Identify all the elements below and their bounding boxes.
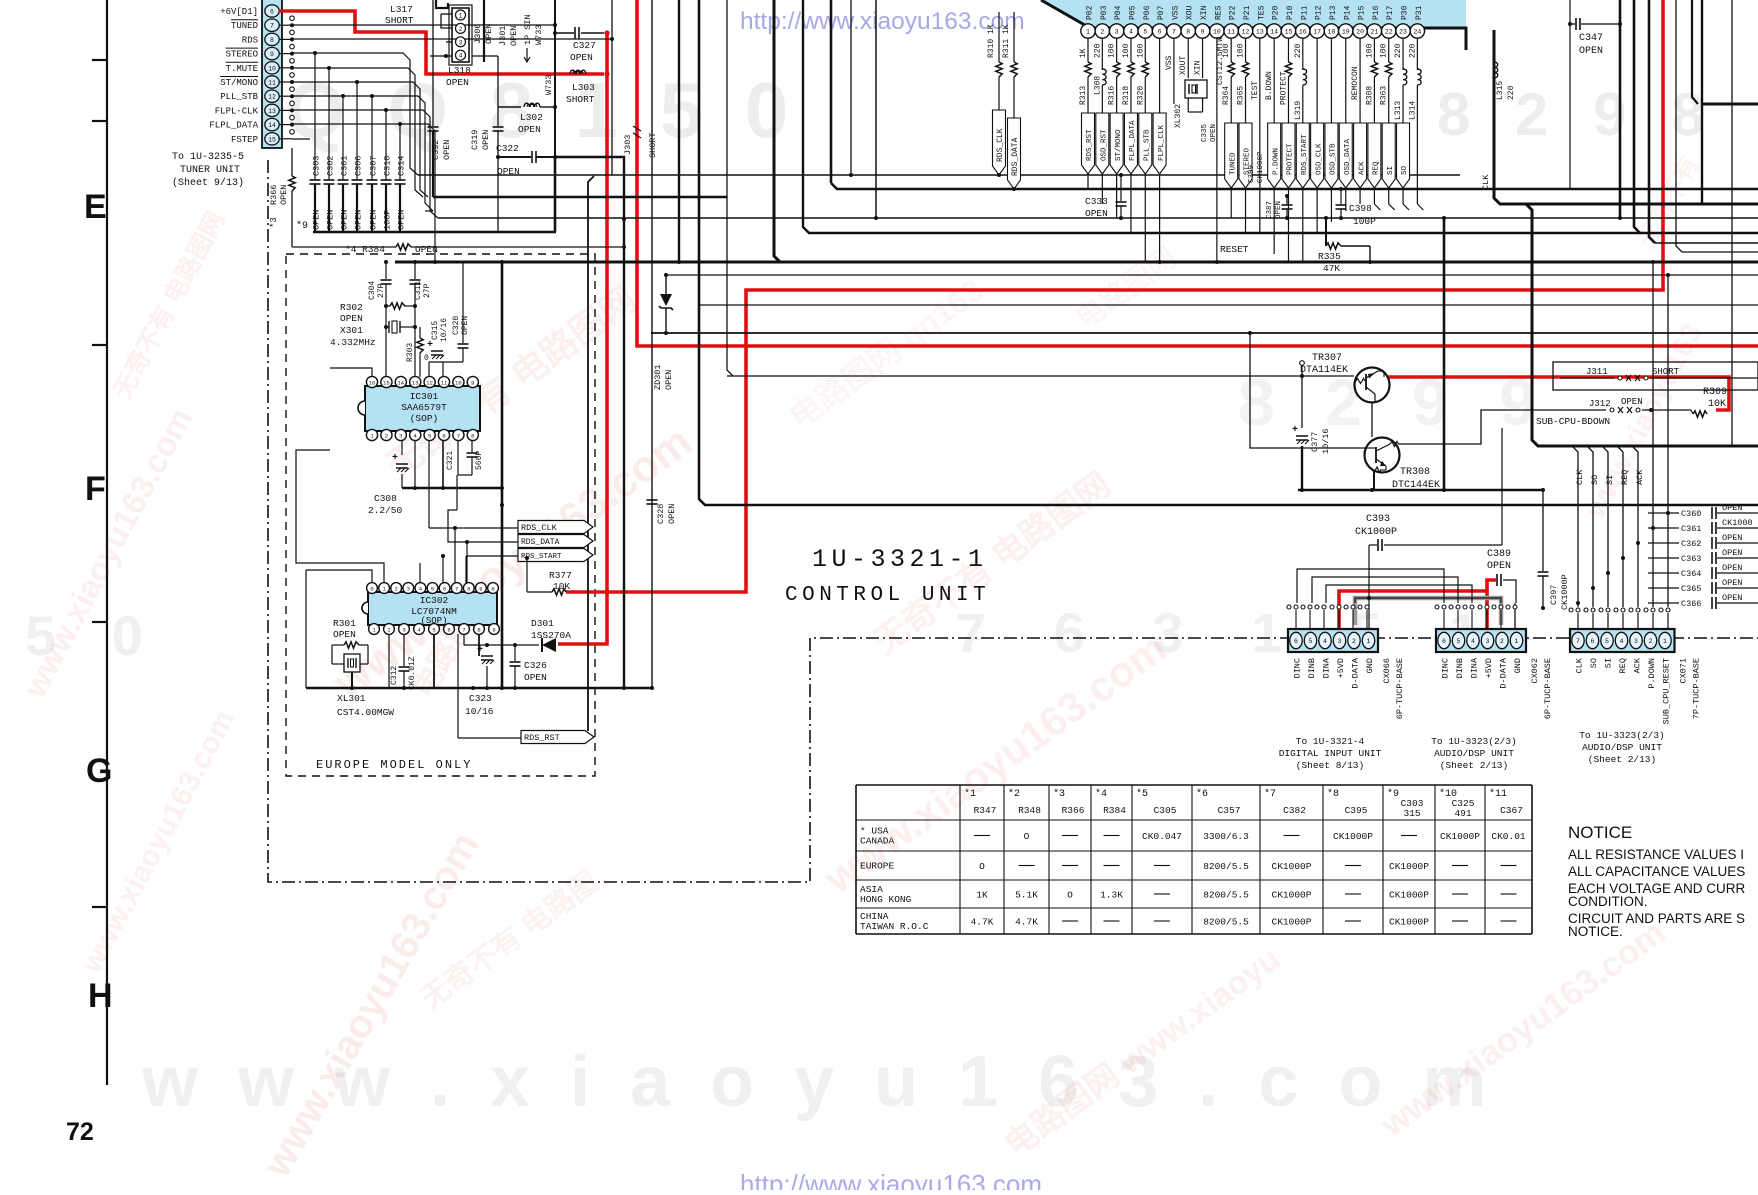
tuner pin stub wires [279, 24, 292, 26]
svg-text:OPEN: OPEN [1722, 548, 1742, 558]
svg-text:18: 18 [1328, 28, 1336, 35]
svg-text:VSS: VSS [1171, 5, 1180, 20]
cpu pin19 drop OSD_DATA [1345, 38, 1347, 211]
svg-text:11: 11 [441, 379, 448, 386]
svg-text:DINB: DINB [1307, 658, 1317, 678]
ic IC301 SAA6579T [365, 386, 480, 431]
svg-text:ST/MONO: ST/MONO [1115, 129, 1123, 161]
svg-text:9: 9 [1201, 28, 1205, 35]
resistor R310 1K RDS_CLK leg [998, 12, 1000, 62]
svg-text:ALL RESISTANCE VALUES I: ALL RESISTANCE VALUES I [1568, 847, 1744, 862]
wire x624 C322 to gnd bus [555, 157, 624, 687]
svg-text:http://www.xiaoyu163.com: http://www.xiaoyu163.com [740, 1169, 1042, 1190]
svg-text:SUB-CPU-BDOWN: SUB-CPU-BDOWN [1536, 416, 1610, 427]
svg-text:OPEN: OPEN [1621, 397, 1643, 407]
svg-text:14: 14 [268, 122, 276, 129]
cpu pin24 drop L314 220 [1416, 38, 1418, 70]
svg-text:OPEN: OPEN [664, 370, 674, 390]
svg-text:6P-TUCP-BASE: 6P-TUCP-BASE [1395, 658, 1405, 719]
svg-text:C333: C333 [1085, 196, 1108, 207]
wire P.DOWN to CX071 [1652, 262, 1654, 607]
svg-text:C382: C382 [1283, 805, 1306, 816]
svg-text:C393: C393 [1366, 514, 1390, 525]
svg-text:(Sheet 9/13): (Sheet 9/13) [172, 177, 244, 189]
diode D301 1SS270A wire [463, 634, 465, 645]
svg-text:13: 13 [268, 108, 276, 115]
cpu pin 24 P31 [1410, 24, 1424, 38]
svg-text:C305: C305 [1154, 805, 1177, 816]
fan pin14 [292, 124, 435, 262]
svg-text:F: F [85, 470, 106, 508]
cpu pin20 drop REMOCON [1359, 38, 1361, 204]
cpu pin15 drop PROTECT [1287, 38, 1289, 62]
svg-text:7: 7 [1576, 638, 1580, 645]
svg-text:PROTECT: PROTECT [1279, 71, 1288, 105]
svg-text:24: 24 [1413, 28, 1421, 35]
cpu pin 3 P04 [1109, 24, 1123, 38]
wire bus y=446 thick right [1494, 30, 1758, 446]
svg-text:D-DATA: D-DATA [1499, 657, 1509, 689]
svg-text:TEST: TEST [1251, 81, 1260, 100]
svg-text:3: 3 [459, 39, 463, 46]
diode D301 symbol [542, 638, 556, 652]
svg-text:10: 10 [268, 65, 276, 72]
svg-text:7: 7 [1172, 28, 1176, 35]
svg-text:CONTROL UNIT: CONTROL UNIT [785, 584, 990, 607]
svg-text:DTA114EK: DTA114EK [1300, 365, 1348, 376]
wire pin10 RES RESET [1216, 38, 1218, 262]
svg-text:C322: C322 [496, 143, 519, 154]
svg-text:RDS_START: RDS_START [1301, 134, 1309, 175]
svg-text:CK0.01: CK0.01 [1491, 831, 1526, 842]
svg-text:*8: *8 [1327, 788, 1339, 800]
svg-text:L313: L313 [1394, 101, 1403, 120]
svg-text:560P: 560P [475, 451, 484, 470]
svg-text:3: 3 [1338, 638, 1342, 645]
fan pin12 [292, 96, 433, 211]
svg-text:C314: C314 [397, 156, 407, 176]
svg-text:5: 5 [1457, 638, 1461, 645]
svg-text:P.DOWN: P.DOWN [1272, 148, 1280, 175]
svg-text:C399: C399 [1248, 165, 1256, 183]
svg-text:R347: R347 [974, 805, 997, 816]
svg-text:6: 6 [1591, 638, 1595, 645]
tuner connector pin 10 T.MUTE [265, 62, 279, 74]
svg-text:8: 8 [467, 585, 470, 592]
svg-text:*7: *7 [1264, 788, 1276, 800]
capacitor C365 OPEN [1648, 587, 1679, 589]
svg-text:SUB_CPU_RESET: SUB_CPU_RESET [1662, 658, 1672, 724]
svg-text:C306: C306 [354, 156, 364, 176]
svg-text:2: 2 [1500, 638, 1504, 645]
cpu pin 14 P20 [1267, 24, 1281, 38]
svg-text:C308: C308 [374, 493, 397, 504]
svg-text:5: 5 [431, 585, 434, 592]
svg-text:*9: *9 [1387, 788, 1399, 800]
svg-text:FLPL-CLK: FLPL-CLK [215, 106, 259, 116]
capacitor C307 OPEN [371, 96, 373, 180]
svg-text:OPEN: OPEN [442, 140, 452, 160]
svg-text:*4 R384: *4 R384 [345, 244, 385, 255]
svg-text:OPEN: OPEN [1722, 503, 1742, 513]
svg-text:12: 12 [1242, 28, 1250, 35]
svg-text:C315: C315 [431, 321, 440, 340]
svg-text:3: 3 [407, 585, 410, 592]
svg-text:RDS_CLK: RDS_CLK [996, 128, 1005, 162]
svg-text:15: 15 [383, 379, 390, 386]
capacitor C392 OPEN [432, 0, 434, 126]
svg-text:P17: P17 [1386, 5, 1395, 20]
svg-text:CK1000P: CK1000P [1355, 527, 1397, 538]
wire DINC bridge [1297, 569, 1444, 603]
wire IC302 pin5 thick [433, 634, 435, 688]
svg-text:TES: TES [1257, 5, 1266, 20]
svg-text:OPEN: OPEN [279, 185, 289, 205]
svg-text:(Sheet 2/13): (Sheet 2/13) [1588, 754, 1656, 765]
svg-text:11: 11 [1227, 28, 1235, 35]
svg-text:*9: *9 [296, 220, 308, 232]
svg-text:J306: J306 [473, 24, 483, 44]
svg-text:20: 20 [1356, 28, 1364, 35]
svg-text:C320: C320 [452, 316, 461, 335]
svg-text:OPEN: OPEN [340, 313, 363, 324]
svg-text:OPEN: OPEN [1275, 201, 1283, 219]
svg-text:1: 1 [459, 13, 463, 20]
svg-text:OPEN: OPEN [518, 124, 541, 135]
svg-text:C347: C347 [1579, 33, 1603, 44]
jumper J312 OPEN [1536, 409, 1606, 411]
svg-text:7: 7 [270, 23, 274, 30]
svg-text:6: 6 [443, 585, 446, 592]
svg-text:8200/5.5: 8200/5.5 [1203, 890, 1249, 901]
svg-text:C357: C357 [1218, 805, 1241, 816]
fan pin10 [292, 68, 423, 197]
svg-text:*3: *3 [1053, 788, 1065, 800]
svg-text:T.MUTE: T.MUTE [226, 64, 258, 74]
svg-text:8200/5.5: 8200/5.5 [1203, 861, 1249, 872]
svg-text:DINC: DINC [1293, 658, 1303, 678]
cpu pin 7 VSS [1167, 24, 1181, 38]
svg-text:C321: C321 [446, 451, 455, 470]
cpu pin 12 P21 [1238, 24, 1252, 38]
svg-text:CK1000P: CK1000P [1560, 574, 1570, 610]
svg-text:RDS_RST: RDS_RST [1086, 129, 1094, 161]
svg-text:GND: GND [1365, 658, 1375, 673]
svg-text:P16: P16 [1372, 5, 1381, 20]
svg-text:L308: L308 [1093, 76, 1102, 95]
capacitor C321 560P [457, 441, 459, 475]
svg-text:3: 3 [1115, 28, 1119, 35]
svg-text:C328: C328 [656, 504, 666, 524]
capacitor C301 OPEN [342, 96, 344, 180]
svg-text:REQ: REQ [1620, 470, 1630, 485]
svg-text:OSD_RST: OSD_RST [1101, 129, 1109, 161]
svg-text:CONDITION.: CONDITION. [1568, 894, 1648, 909]
inductor L302 OPEN [498, 106, 521, 108]
tuner connector pin 7 TUNED [265, 19, 279, 31]
wire RDS_CLK flag [428, 441, 430, 528]
svg-text:100P: 100P [383, 210, 393, 230]
svg-text:220: 220 [1394, 43, 1403, 58]
svg-text:H: H [88, 977, 113, 1015]
svg-text:P20: P20 [1272, 5, 1281, 20]
svg-text:R366: R366 [1062, 805, 1085, 816]
svg-text:DINC: DINC [1441, 658, 1451, 678]
wire bus y=233 [803, 0, 1758, 233]
svg-text:100: 100 [1380, 43, 1389, 58]
svg-text:C377: C377 [1310, 432, 1320, 452]
svg-text:L318: L318 [448, 65, 471, 76]
svg-text:RDS_RST: RDS_RST [524, 733, 560, 743]
svg-text:C311: C311 [414, 281, 423, 300]
cpu pin14 drop B.DOWN [1273, 38, 1275, 254]
svg-text:CK1000P: CK1000P [1389, 890, 1429, 901]
resistor R313 1K pin1 [1087, 38, 1089, 62]
svg-text:11: 11 [268, 80, 276, 87]
svg-text:P04: P04 [1114, 5, 1123, 20]
svg-text:+: + [427, 340, 433, 351]
svg-text:OPEN: OPEN [509, 26, 519, 46]
svg-text:R309: R309 [1703, 387, 1727, 398]
svg-text:23: 23 [1399, 28, 1407, 35]
svg-text:TUNED: TUNED [231, 21, 258, 31]
svg-text:27P: 27P [377, 283, 386, 298]
svg-text:ACK: ACK [1635, 469, 1645, 485]
svg-text:OPEN: OPEN [333, 629, 356, 640]
cpu pin 17 P12 [1310, 24, 1324, 38]
wire IC302 pin8 thick [478, 634, 480, 656]
wire DINA bridge [1326, 585, 1472, 603]
svg-text:X301: X301 [340, 325, 363, 336]
svg-text:27P: 27P [423, 283, 432, 298]
capacitor C306 OPEN [356, 82, 358, 180]
svg-text:FLPL_DATA: FLPL_DATA [1129, 120, 1137, 161]
svg-text:1P SIN: 1P SIN [523, 14, 533, 45]
svg-text:10/16: 10/16 [440, 318, 449, 342]
resistor R318 100 pin4 [1130, 38, 1132, 62]
svg-text:P07: P07 [1157, 5, 1166, 20]
svg-text:STEREO: STEREO [226, 50, 258, 60]
cpu pin16 drop L319 220 [1302, 38, 1304, 70]
svg-text:CK1000P: CK1000P [1257, 151, 1265, 183]
tuner connector pin 13 FLPL-CLK [265, 104, 279, 116]
svg-text:TR308: TR308 [1400, 467, 1430, 478]
capacitor C304 27P [385, 262, 387, 279]
svg-text:OPEN: OPEN [1579, 46, 1603, 57]
svg-text:C301: C301 [340, 156, 350, 176]
dots C360 caps to verticals [1666, 511, 1670, 515]
svg-text:DINB: DINB [1455, 658, 1465, 678]
svg-text:315: 315 [1403, 808, 1420, 819]
svg-text:R348: R348 [1018, 805, 1041, 816]
connector CX071 7P-TUCP-BASE [1570, 629, 1675, 652]
red wire from pin6 +6V [279, 11, 604, 74]
svg-text:P12: P12 [1315, 5, 1324, 20]
svg-text:R366: R366 [269, 185, 279, 205]
svg-text:+: + [1292, 425, 1298, 436]
cpu pin 4 P05 [1124, 24, 1138, 38]
wire SUB_CPU_RESET to CX071 [1667, 275, 1669, 607]
margin rule [106, 0, 108, 1085]
svg-text:ACK: ACK [1358, 161, 1366, 175]
wire ACK to CX071 [1632, 446, 1638, 607]
svg-text:REQ: REQ [1618, 658, 1628, 673]
svg-text:14: 14 [1270, 28, 1278, 35]
capacitor C333 OPEN [1120, 175, 1122, 201]
tuner connector pin 15 FSTEP [265, 133, 279, 145]
svg-text:13: 13 [1256, 28, 1264, 35]
svg-text:VSS: VSS [1165, 55, 1174, 70]
svg-text:7: 7 [455, 585, 458, 592]
cpu pin 6 P07 [1152, 24, 1166, 38]
svg-text:7: 7 [457, 432, 460, 439]
capacitor C326 OPEN [514, 645, 516, 661]
cpu pin13 drop TEST [1259, 38, 1261, 233]
svg-text:8: 8 [1186, 28, 1190, 35]
tuner connector pin 6 +6V[D1] [265, 5, 279, 17]
svg-text:SO: SO [1590, 475, 1600, 485]
svg-text:RDS: RDS [242, 35, 258, 45]
svg-text:OSD_STB: OSD_STB [1330, 143, 1338, 175]
connector break circles CX066 CX062 [1287, 605, 1291, 609]
svg-text:+: + [392, 453, 398, 464]
capacitor C364 OPEN [1648, 572, 1679, 574]
svg-text:C364: C364 [1681, 569, 1701, 579]
svg-text:2: 2 [387, 626, 390, 633]
wire REQ to CX071 [1617, 446, 1623, 607]
wire bus y=305 [700, 304, 1758, 306]
svg-text:3: 3 [399, 432, 402, 439]
wires above IC302 [306, 570, 372, 583]
capacitor C320 OPEN [462, 262, 464, 343]
svg-text:+5VD: +5VD [1484, 658, 1494, 678]
svg-text:CLK: CLK [1575, 657, 1585, 673]
svg-text:OPEN: OPEN [1085, 208, 1108, 219]
svg-text:10/16: 10/16 [465, 706, 494, 717]
cpu pin 1 P02 [1081, 24, 1095, 38]
svg-text:4: 4 [1129, 28, 1133, 35]
svg-text:C307: C307 [369, 156, 379, 176]
svg-text:47K: 47K [1323, 263, 1340, 274]
cpu pin12 drop R365 100 [1245, 38, 1247, 62]
cpu pin 15 P10 [1281, 24, 1295, 38]
fan pin7 [292, 24, 555, 26]
svg-text:FLPL_CLK: FLPL_CLK [1158, 124, 1166, 161]
svg-text:6: 6 [1158, 28, 1162, 35]
svg-text:P21: P21 [1243, 5, 1252, 20]
wire bus y=104 top right thick [1702, 103, 1758, 106]
svg-text:P10: P10 [1286, 5, 1295, 20]
wire IC301 pin16 west [330, 368, 372, 377]
svg-text:EUROPE: EUROPE [860, 861, 895, 872]
svg-text:4.7K: 4.7K [971, 917, 994, 928]
svg-text:OPEN: OPEN [667, 504, 677, 524]
svg-text:220: 220 [1408, 43, 1417, 58]
cpu pin23 drop L313 220 [1402, 38, 1404, 70]
svg-text:OPEN: OPEN [1722, 563, 1742, 573]
svg-text:17: 17 [1313, 28, 1321, 35]
svg-text:7P-TUCP-BASE: 7P-TUCP-BASE [1692, 658, 1702, 719]
cpu pin 18 P13 [1324, 24, 1338, 38]
svg-text:C323: C323 [469, 693, 492, 704]
svg-text:2: 2 [395, 585, 398, 592]
svg-text:+6V[D1]: +6V[D1] [220, 7, 258, 17]
svg-text:10K: 10K [1708, 399, 1726, 410]
svg-text:14: 14 [397, 379, 404, 386]
svg-text:R384: R384 [1103, 805, 1126, 816]
svg-text:CX066: CX066 [1382, 658, 1392, 684]
svg-text:4: 4 [1471, 638, 1475, 645]
svg-text:C362: C362 [1681, 539, 1701, 549]
svg-text:72: 72 [66, 1118, 94, 1146]
svg-text:ACK: ACK [1633, 657, 1643, 673]
svg-text:C365: C365 [1681, 584, 1701, 594]
tuner connector pin 12 PLL_STB [265, 90, 279, 102]
resistor R303 0 [419, 327, 421, 338]
svg-text:RDS_CLK: RDS_CLK [521, 523, 558, 533]
capacitor C303 OPEN [314, 53, 316, 180]
svg-text:G: G [86, 752, 112, 790]
svg-text:C397: C397 [1549, 585, 1559, 605]
svg-text:R377: R377 [549, 570, 572, 581]
svg-text:0: 0 [424, 354, 429, 363]
svg-text:*3: *3 [269, 217, 279, 228]
fan pin13 [292, 110, 438, 218]
svg-text:6P-TUCP-BASE: 6P-TUCP-BASE [1543, 658, 1553, 719]
capacitor C397 CK1000P [1542, 490, 1544, 571]
svg-text:P13: P13 [1329, 5, 1338, 20]
svg-text:16: 16 [1299, 28, 1307, 35]
svg-text:100: 100 [1122, 43, 1131, 58]
svg-text:R302: R302 [340, 302, 363, 313]
resistor R316 100 pin3 [1116, 38, 1118, 62]
wire RDS_START flag [466, 555, 518, 557]
svg-text:100: 100 [1365, 43, 1374, 58]
cpu pin 5 P06 [1138, 24, 1152, 38]
svg-text:SHORT: SHORT [1652, 367, 1680, 377]
svg-text:10K: 10K [553, 581, 570, 592]
svg-text:P15: P15 [1358, 5, 1367, 20]
resistor R366 OPEN [291, 148, 293, 176]
svg-text:L302: L302 [520, 112, 543, 123]
svg-text:(Sheet 8/13): (Sheet 8/13) [1296, 760, 1364, 771]
svg-text:9: 9 [479, 585, 482, 592]
svg-text:REQ: REQ [1373, 161, 1381, 175]
svg-text:To 1U-3323(2/3): To 1U-3323(2/3) [1579, 730, 1665, 741]
svg-text:R320: R320 [1136, 86, 1145, 105]
svg-text:*11: *11 [1489, 788, 1507, 800]
svg-text:O: O [979, 861, 985, 872]
svg-text:OPEN: OPEN [484, 24, 494, 44]
svg-text:EUROPE MODEL ONLY: EUROPE MODEL ONLY [316, 758, 472, 772]
cpu pin 20 P15 [1353, 24, 1367, 38]
svg-text:L303: L303 [572, 82, 595, 93]
resistor R384 OPEN row [292, 246, 396, 248]
svg-text:W733: W733 [544, 75, 554, 95]
svg-text:W733: W733 [534, 25, 544, 45]
svg-text:C310: C310 [383, 156, 393, 176]
svg-text:4: 4 [1620, 638, 1624, 645]
svg-text:R313: R313 [1079, 86, 1088, 105]
svg-text:RESET: RESET [1220, 244, 1249, 255]
svg-text:OPEN: OPEN [497, 166, 520, 177]
capacitor C322 OPEN [498, 156, 531, 158]
svg-text:1K: 1K [976, 890, 988, 901]
svg-text:To 1U-3321-4: To 1U-3321-4 [1296, 736, 1365, 747]
red wire J303 vertical x637 [637, 0, 1758, 346]
svg-text:3300/6.3: 3300/6.3 [1203, 831, 1249, 842]
table variant parts [855, 785, 857, 934]
